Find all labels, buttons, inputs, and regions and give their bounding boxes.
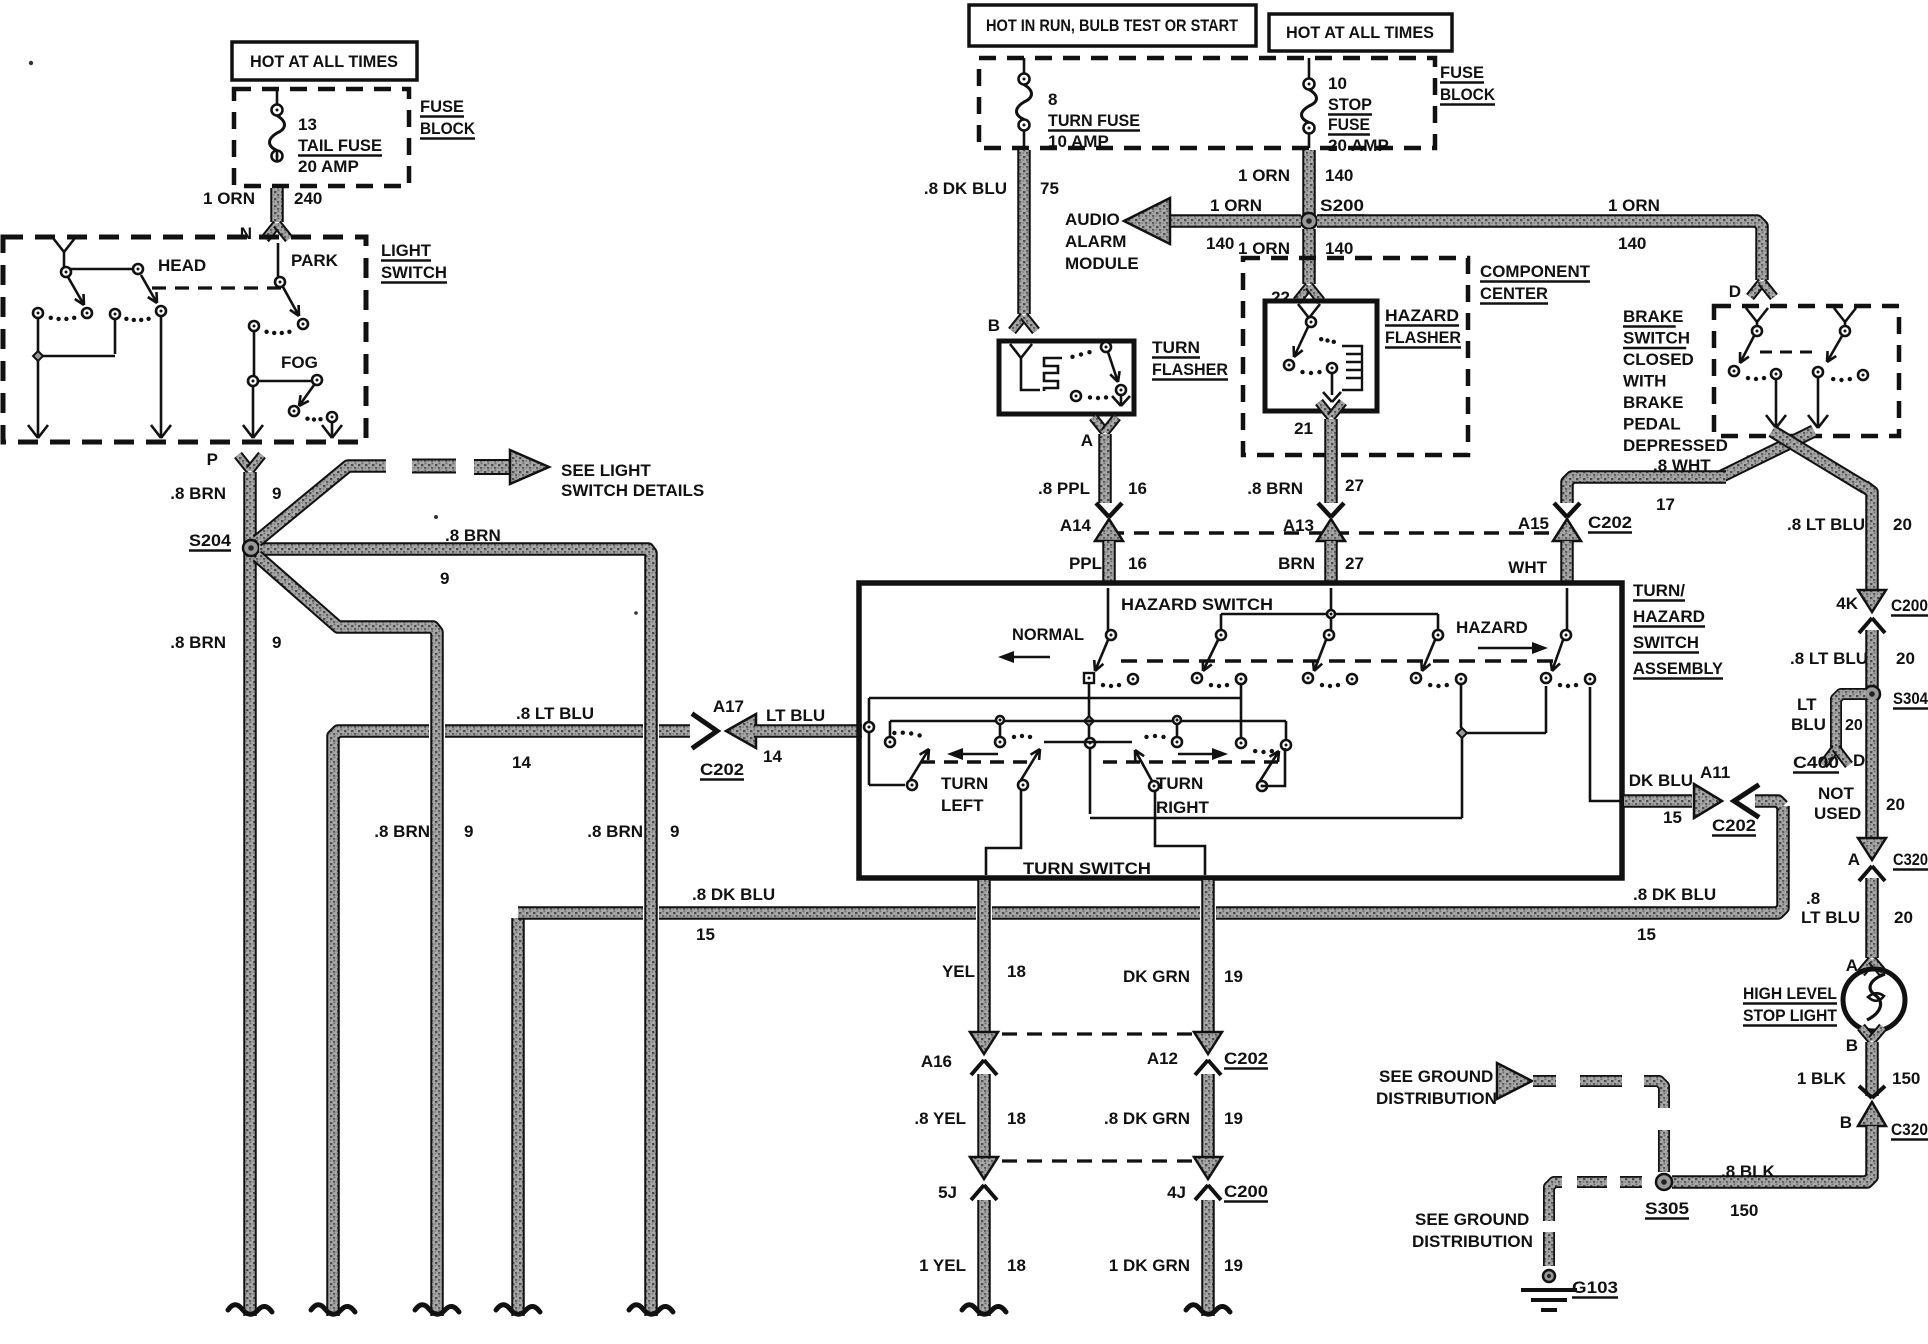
svg-text:HAZARD SWITCH: HAZARD SWITCH: [1121, 595, 1273, 614]
svg-text:1 ORN: 1 ORN: [1238, 166, 1290, 185]
svg-text:20: 20: [1896, 649, 1915, 668]
svg-text:LT BLU: LT BLU: [766, 706, 825, 725]
svg-text:.8 BLK: .8 BLK: [1721, 1162, 1776, 1181]
svg-text:DISTRIBUTION: DISTRIBUTION: [1376, 1089, 1497, 1108]
svg-text:C200: C200: [1224, 1182, 1268, 1201]
svg-text:14: 14: [512, 753, 531, 772]
svg-text:D: D: [1853, 751, 1865, 770]
svg-text:DK BLU: DK BLU: [1629, 771, 1693, 790]
svg-text:20: 20: [1845, 717, 1863, 734]
svg-text:PEDAL: PEDAL: [1623, 415, 1681, 434]
svg-text:TURN SWITCH: TURN SWITCH: [1023, 859, 1151, 878]
svg-text:20 AMP: 20 AMP: [298, 157, 359, 176]
svg-text:NOT: NOT: [1818, 784, 1855, 803]
svg-text:LT BLU: LT BLU: [1801, 908, 1860, 927]
svg-text:.8 BRN: .8 BRN: [1247, 479, 1303, 498]
svg-text:ALARM: ALARM: [1065, 232, 1126, 251]
svg-text:N: N: [240, 224, 252, 243]
svg-text:HOT IN RUN, BULB TEST OR START: HOT IN RUN, BULB TEST OR START: [986, 16, 1239, 35]
svg-text:.8 LT BLU: .8 LT BLU: [1790, 649, 1868, 668]
svg-text:1 BLK: 1 BLK: [1797, 1069, 1847, 1088]
svg-text:A17: A17: [713, 697, 744, 716]
svg-text:FOG: FOG: [281, 353, 318, 372]
svg-text:NORMAL: NORMAL: [1012, 625, 1084, 644]
svg-text:140: 140: [1325, 166, 1353, 185]
svg-text:BRN: BRN: [1278, 554, 1315, 573]
svg-text:HOT AT ALL TIMES: HOT AT ALL TIMES: [1286, 23, 1434, 42]
svg-text:LT: LT: [1797, 695, 1817, 714]
svg-text:1 ORN: 1 ORN: [1238, 239, 1290, 258]
svg-text:FUSE: FUSE: [1328, 115, 1370, 134]
svg-text:16: 16: [1128, 479, 1147, 498]
svg-text:RIGHT: RIGHT: [1156, 798, 1210, 817]
svg-text:SWITCH: SWITCH: [1623, 329, 1690, 348]
svg-text:B: B: [988, 316, 1000, 335]
svg-text:18: 18: [1007, 962, 1026, 981]
svg-text:150: 150: [1730, 1201, 1758, 1220]
svg-text:.8 WHT: .8 WHT: [1653, 456, 1711, 475]
svg-text:140: 140: [1325, 239, 1353, 258]
svg-text:140: 140: [1206, 234, 1234, 253]
svg-text:COMPONENT: COMPONENT: [1480, 262, 1591, 281]
svg-text:D: D: [1729, 282, 1741, 301]
svg-text:1 ORN: 1 ORN: [1608, 196, 1660, 215]
svg-text:4K: 4K: [1836, 594, 1858, 613]
svg-text:P: P: [207, 450, 218, 469]
svg-text:TURN: TURN: [941, 774, 988, 793]
svg-text:S204: S204: [189, 531, 232, 550]
svg-text:BLOCK: BLOCK: [1440, 85, 1496, 104]
svg-text:STOP LIGHT: STOP LIGHT: [1743, 1006, 1838, 1025]
svg-text:USED: USED: [1814, 804, 1861, 823]
svg-text:15: 15: [1637, 925, 1656, 944]
svg-text:CLOSED: CLOSED: [1623, 350, 1694, 369]
svg-text:.8 BRN: .8 BRN: [587, 822, 643, 841]
svg-text:.8: .8: [1806, 889, 1820, 908]
svg-text:18: 18: [1007, 1256, 1026, 1275]
svg-text:A16: A16: [921, 1052, 952, 1071]
svg-text:A12: A12: [1147, 1049, 1178, 1068]
svg-text:TURN: TURN: [1152, 338, 1200, 357]
svg-text:HEAD: HEAD: [158, 256, 206, 275]
svg-text:MODULE: MODULE: [1065, 254, 1139, 273]
svg-text:C202: C202: [700, 760, 744, 779]
svg-text:9: 9: [464, 822, 473, 841]
svg-text:21: 21: [1294, 419, 1313, 438]
svg-text:BLOCK: BLOCK: [420, 119, 476, 138]
svg-text:A11: A11: [1700, 763, 1730, 782]
svg-text:SWITCH: SWITCH: [381, 263, 447, 282]
svg-text:.8 BRN: .8 BRN: [170, 484, 226, 503]
svg-text:240: 240: [294, 189, 322, 208]
svg-text:SEE GROUND: SEE GROUND: [1415, 1210, 1529, 1229]
svg-text:.8 PPL: .8 PPL: [1038, 479, 1090, 498]
svg-text:27: 27: [1345, 554, 1364, 573]
svg-text:G103: G103: [1572, 1278, 1618, 1297]
svg-text:WITH: WITH: [1623, 372, 1666, 391]
svg-text:STOP: STOP: [1328, 95, 1372, 114]
svg-text:HAZARD: HAZARD: [1456, 618, 1528, 637]
svg-text:15: 15: [1663, 808, 1682, 827]
svg-text:.8 BRN: .8 BRN: [445, 526, 501, 545]
svg-text:AUDIO: AUDIO: [1065, 210, 1120, 229]
svg-text:5J: 5J: [938, 1183, 957, 1202]
svg-text:9: 9: [440, 569, 449, 588]
svg-text:20: 20: [1893, 515, 1912, 534]
svg-text:.8 DK BLU: .8 DK BLU: [692, 885, 775, 904]
svg-text:19: 19: [1224, 1256, 1243, 1275]
svg-text:BLU: BLU: [1791, 715, 1826, 734]
svg-text:A: A: [1081, 431, 1093, 450]
svg-text:HIGH LEVEL: HIGH LEVEL: [1743, 984, 1837, 1003]
svg-text:FUSE: FUSE: [420, 97, 464, 116]
svg-text:SWITCH DETAILS: SWITCH DETAILS: [561, 481, 704, 500]
svg-text:A15: A15: [1518, 514, 1549, 533]
svg-text:150: 150: [1892, 1069, 1920, 1088]
svg-text:.8 DK BLU: .8 DK BLU: [1633, 885, 1716, 904]
svg-text:C320: C320: [1891, 1120, 1928, 1139]
svg-text:.8 LT BLU: .8 LT BLU: [516, 704, 594, 723]
svg-text:18: 18: [1007, 1109, 1026, 1128]
svg-text:4J: 4J: [1167, 1183, 1186, 1202]
svg-text:DISTRIBUTION: DISTRIBUTION: [1412, 1232, 1533, 1251]
svg-text:20 AMP: 20 AMP: [1328, 136, 1389, 155]
svg-text:HAZARD: HAZARD: [1385, 306, 1459, 325]
svg-text:.8 DK GRN: .8 DK GRN: [1104, 1109, 1190, 1128]
svg-text:1 YEL: 1 YEL: [919, 1256, 966, 1275]
svg-text:BRAKE: BRAKE: [1623, 307, 1683, 326]
svg-text:B: B: [1846, 1036, 1858, 1055]
svg-text:C320: C320: [1893, 850, 1928, 869]
svg-text:HOT AT ALL TIMES: HOT AT ALL TIMES: [250, 52, 398, 71]
svg-text:8: 8: [1048, 90, 1057, 109]
svg-text:19: 19: [1224, 967, 1243, 986]
svg-text:.8 YEL: .8 YEL: [914, 1109, 966, 1128]
svg-text:9: 9: [272, 633, 281, 652]
svg-text:.8 BRN: .8 BRN: [374, 822, 430, 841]
svg-text:16: 16: [1128, 554, 1147, 573]
svg-text:PPL: PPL: [1069, 554, 1102, 573]
svg-text:A: A: [1848, 850, 1860, 869]
svg-text:SEE GROUND: SEE GROUND: [1379, 1067, 1493, 1086]
svg-text:ASSEMBLY: ASSEMBLY: [1633, 659, 1724, 678]
svg-text:1 DK GRN: 1 DK GRN: [1109, 1256, 1190, 1275]
svg-text:TURN/: TURN/: [1633, 581, 1685, 600]
svg-text:LIGHT: LIGHT: [381, 241, 432, 260]
svg-text:WHT: WHT: [1508, 558, 1547, 577]
svg-text:HAZARD: HAZARD: [1633, 607, 1705, 626]
svg-text:TURN FUSE: TURN FUSE: [1048, 111, 1140, 130]
svg-text:S305: S305: [1645, 1199, 1689, 1218]
svg-text:19: 19: [1224, 1109, 1243, 1128]
svg-text:S304: S304: [1893, 689, 1928, 708]
svg-text:S200: S200: [1320, 196, 1364, 215]
svg-text:C400: C400: [1793, 753, 1839, 772]
svg-text:27: 27: [1345, 476, 1364, 495]
svg-text:20: 20: [1886, 795, 1905, 814]
svg-text:FLASHER: FLASHER: [1152, 360, 1228, 379]
svg-text:.8 DK BLU: .8 DK BLU: [924, 179, 1007, 198]
svg-text:1 ORN: 1 ORN: [203, 189, 255, 208]
svg-text:FLASHER: FLASHER: [1385, 328, 1461, 347]
svg-text:75: 75: [1040, 179, 1059, 198]
svg-text:YEL: YEL: [942, 962, 975, 981]
svg-text:140: 140: [1618, 234, 1646, 253]
svg-text:C202: C202: [1588, 513, 1632, 532]
svg-text:14: 14: [763, 747, 782, 766]
svg-text:C200: C200: [1891, 596, 1928, 615]
svg-text:A13: A13: [1283, 516, 1314, 535]
svg-text:B: B: [1840, 1113, 1852, 1132]
svg-text:C202: C202: [1712, 816, 1756, 835]
svg-text:20: 20: [1894, 908, 1913, 927]
svg-text:13: 13: [298, 115, 317, 134]
svg-text:.8 BRN: .8 BRN: [170, 633, 226, 652]
svg-text:10: 10: [1328, 74, 1347, 93]
svg-text:.8 LT BLU: .8 LT BLU: [1787, 515, 1865, 534]
svg-text:SEE LIGHT: SEE LIGHT: [561, 461, 651, 480]
svg-text:TURN: TURN: [1156, 774, 1203, 793]
svg-text:9: 9: [272, 484, 281, 503]
svg-text:10 AMP: 10 AMP: [1048, 132, 1109, 151]
svg-text:PARK: PARK: [291, 251, 339, 270]
svg-text:1 ORN: 1 ORN: [1210, 196, 1262, 215]
svg-text:FUSE: FUSE: [1440, 63, 1484, 82]
svg-text:SWITCH: SWITCH: [1633, 633, 1699, 652]
svg-text:17: 17: [1656, 495, 1675, 514]
svg-text:CENTER: CENTER: [1480, 284, 1548, 303]
svg-text:A14: A14: [1060, 516, 1092, 535]
svg-text:DEPRESSED: DEPRESSED: [1623, 436, 1728, 455]
svg-text:TAIL FUSE: TAIL FUSE: [298, 136, 382, 155]
svg-text:C202: C202: [1224, 1049, 1268, 1068]
svg-text:22: 22: [1271, 288, 1290, 307]
svg-text:BRAKE: BRAKE: [1623, 393, 1683, 412]
svg-text:LEFT: LEFT: [941, 796, 984, 815]
svg-text:9: 9: [670, 822, 679, 841]
svg-text:DK GRN: DK GRN: [1123, 967, 1190, 986]
svg-text:15: 15: [696, 925, 715, 944]
